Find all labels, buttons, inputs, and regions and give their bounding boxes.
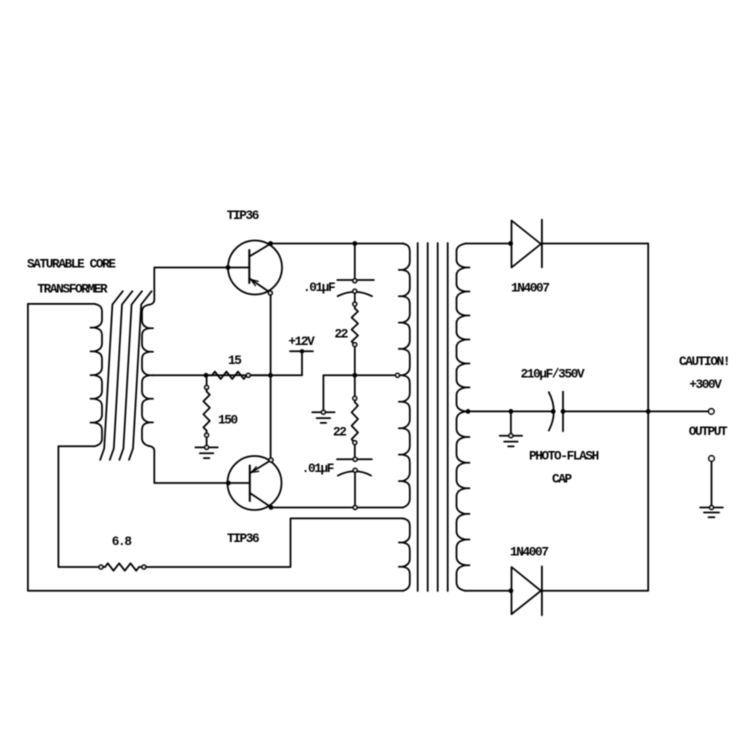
resistor 15: [206, 372, 271, 379]
wire capacitor chain segment R22a to R22b: [354, 345, 356, 403]
wire midrail emitters x=270.5: [270, 293, 272, 460]
svg-text:22: 22: [335, 327, 348, 342]
svg-text:1N4007: 1N4007: [511, 281, 549, 296]
capacitor C1 .01uF upper: [337, 280, 374, 296]
svg-text:TRANSFORMER: TRANSFORMER: [37, 282, 108, 297]
output ground terminal circle: [709, 456, 714, 461]
capacitor C2 .01uF lower: [337, 459, 372, 475]
svg-text:150: 150: [218, 413, 238, 428]
wire capacitor chain segment R22b to cap2: [354, 443, 356, 460]
svg-text:PHOTO-FLASH: PHOTO-FLASH: [529, 449, 599, 464]
output transformer primary winding upper with center tap: [399, 244, 410, 508]
wire capacitor chain upper stub: [354, 244, 356, 280]
svg-text:CAP: CAP: [552, 472, 573, 487]
wire mid-left bias rail y=375.3: [152, 374, 302, 376]
resistor 6.8: [105, 563, 139, 570]
wire secondary tap to filter cap: [466, 410, 553, 412]
wire capacitor chain lower stub: [354, 470, 356, 507]
ground at filter cap negative: [500, 411, 522, 446]
wire base Q1 from saturable transformer: [154, 268, 249, 300]
wire base Q2 from saturable transformer: [154, 451, 250, 483]
capacitor C3 photo-flash 210uF/350V: [549, 392, 563, 432]
wire mid-right center-tap rail y=375.3: [323, 374, 397, 376]
svg-text:OUTPUT: OUTPUT: [689, 424, 728, 439]
svg-text:TIP36: TIP36: [227, 531, 259, 546]
svg-text:SATURABLE CORE: SATURABLE CORE: [27, 257, 116, 272]
transistor Q1 TIP36 top PNP: [228, 241, 282, 295]
saturable transformer core: [100, 291, 151, 460]
wire feedback loop left outer: [28, 304, 403, 591]
svg-text:+300V: +300V: [689, 377, 722, 392]
output transformer core: [418, 243, 448, 591]
wire top diode cathode to rail: [542, 243, 648, 245]
svg-text:22: 22: [333, 425, 346, 440]
diode D2 1N4007 bottom: [512, 566, 542, 615]
component pin circles: [99, 279, 399, 569]
svg-text:.01µF: .01µF: [302, 461, 334, 476]
wire collector Q2 to primary lower tap: [271, 507, 403, 509]
svg-text:210µF/350V: 210µF/350V: [521, 367, 585, 382]
svg-text:TIP36: TIP36: [227, 208, 259, 223]
diode D1 1N4007 top: [512, 220, 542, 268]
output transformer secondary winding with center tap: [457, 244, 470, 591]
wire right HV rail: [647, 244, 649, 591]
resistor 22 upper: [352, 308, 358, 344]
ground below resistor 150: [195, 445, 217, 458]
+12V supply symbol: [290, 349, 313, 375]
ground below output terminal: [700, 461, 723, 517]
svg-text:CAUTION!: CAUTION!: [679, 354, 729, 369]
transistor Q2 TIP36 bottom PNP: [228, 456, 282, 510]
svg-text:+12V: +12V: [288, 334, 315, 349]
resistor 150: [203, 377, 209, 445]
wire 6.8 to lower primary winding: [139, 518, 403, 567]
svg-text:1N4007: 1N4007: [510, 545, 548, 560]
wire bottom diode cathode to rail: [542, 590, 648, 592]
output terminal circle: [709, 409, 714, 414]
wire capacitor chain segment cap1 to R22a: [354, 291, 356, 308]
saturable transformer primary winding left: [28, 304, 102, 446]
svg-text:6.8: 6.8: [112, 534, 132, 549]
resistor 22 lower: [352, 402, 358, 442]
wire top diode anode: [466, 243, 511, 245]
wire 6.8 feedback branch: [58, 446, 105, 567]
wire output node to terminal: [563, 410, 709, 412]
output transformer primary winding lower: [399, 518, 410, 591]
ground center tap of output primary: [312, 375, 334, 423]
svg-text:15: 15: [228, 353, 241, 368]
wire top rail collector Q1 to output transformer primary: [271, 243, 403, 245]
svg-text:.01µF: .01µF: [303, 280, 335, 295]
saturable transformer feedback winding right with center tap: [142, 300, 154, 451]
wire bottom diode anode: [466, 590, 511, 592]
